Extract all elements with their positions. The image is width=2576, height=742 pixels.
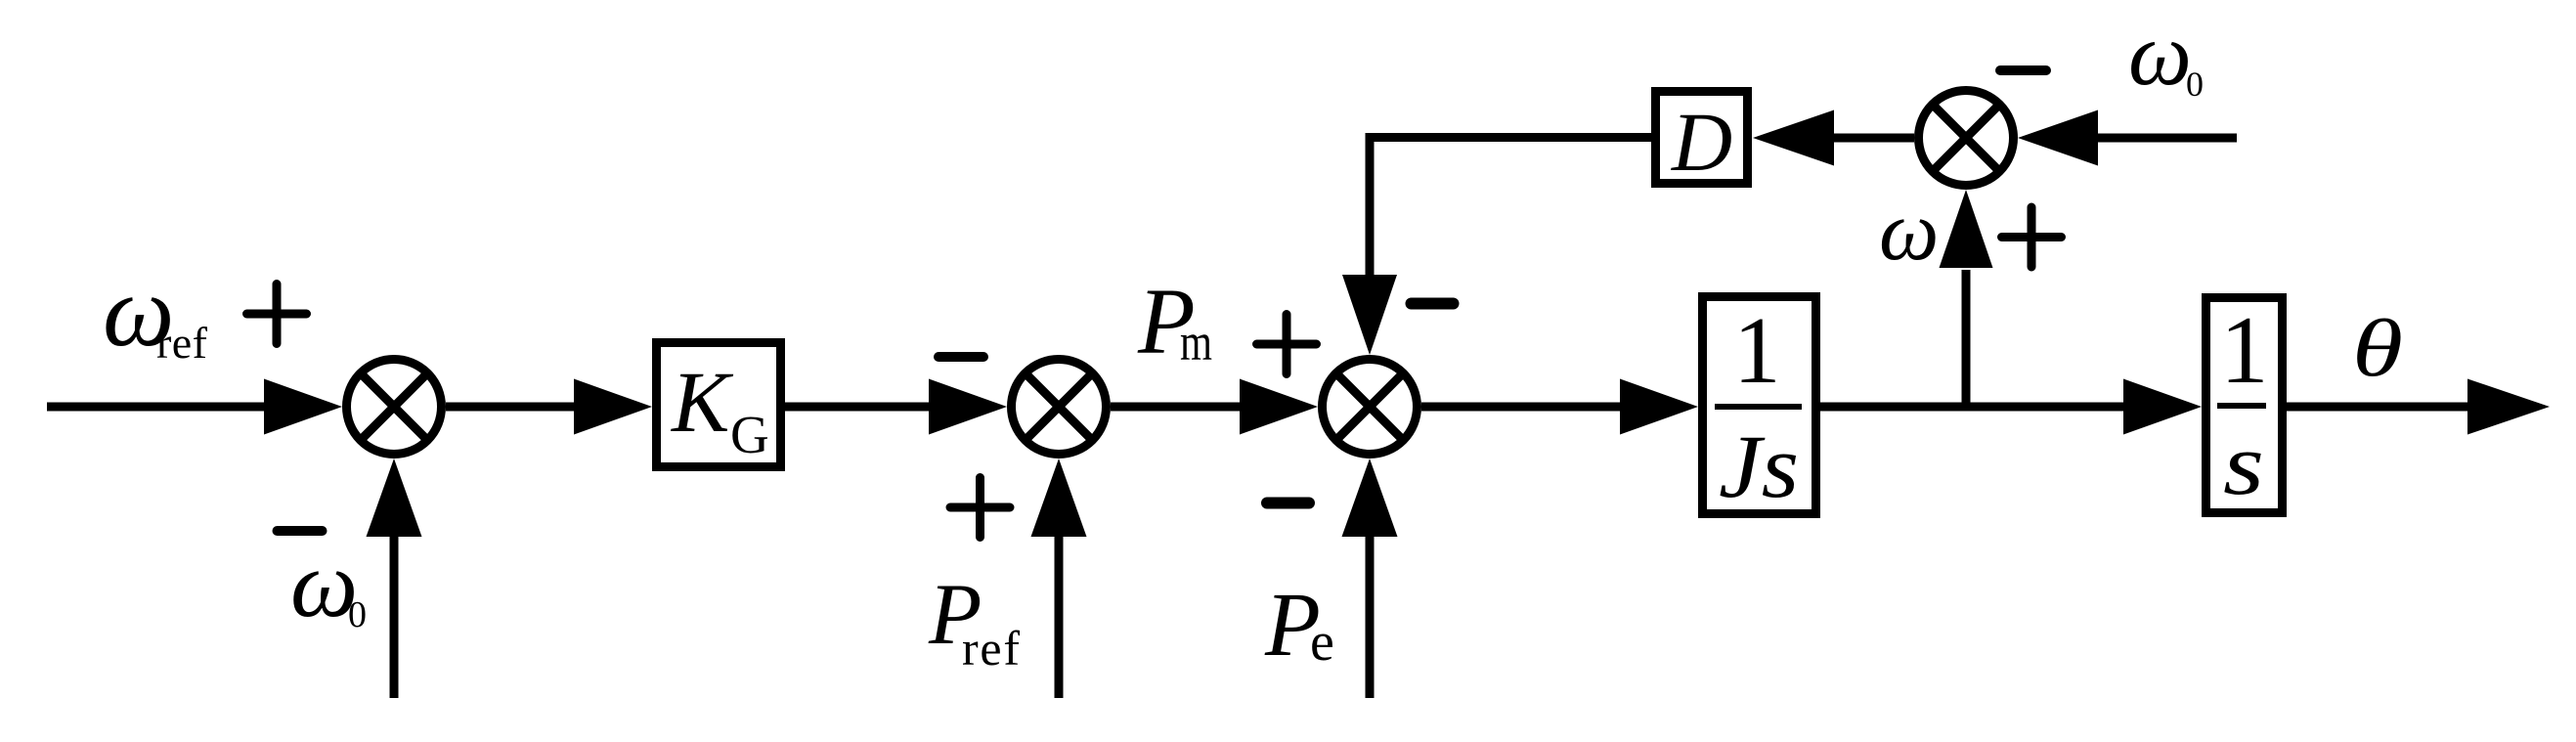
wire S1 to KG: [446, 403, 575, 412]
plus sign at S3 left input: [1257, 315, 1317, 374]
svg-text:1: 1: [2220, 297, 2269, 404]
plus sign at S4 bottom input: [2002, 207, 2062, 267]
summing junction S1 (circle with X): [347, 360, 442, 455]
label omega_ref: [103, 255, 208, 368]
block K_G: [657, 343, 781, 467]
svg-text:0: 0: [348, 594, 367, 635]
minus sign at S3 top input: [1412, 298, 1454, 310]
label P_m: [1137, 269, 1212, 373]
svg-text:s: s: [2223, 416, 2264, 513]
wire omega_0 top input: [2097, 134, 2237, 143]
block 1/Js: [1703, 297, 1816, 517]
arrowhead up into S1: [367, 458, 422, 537]
arrowhead into summing junction S2: [929, 379, 1007, 435]
arrowhead into block 1/s: [2123, 379, 2202, 435]
svg-text:ω: ω: [1879, 183, 1939, 278]
wire P_ref input vertical: [1055, 532, 1064, 698]
minus sign at S4 right input: [2000, 65, 2046, 75]
arrowhead output theta: [2467, 379, 2550, 435]
block 1/s: [2206, 297, 2283, 513]
arrowhead up into S3: [1342, 458, 1398, 537]
svg-text:1: 1: [1733, 298, 1781, 403]
svg-text:G: G: [730, 405, 769, 464]
plus sign at S1 top input: [247, 284, 307, 344]
wire omega_ref input: [47, 403, 264, 412]
arrowhead into block D: [1753, 110, 1834, 166]
wire S3 to 1/Js: [1421, 403, 1621, 412]
svg-text:ref: ref: [962, 621, 1020, 676]
label omega_0 (bottom left): [290, 532, 367, 637]
minus sign at S2 left input: [939, 352, 983, 362]
svg-text:ref: ref: [156, 318, 208, 368]
arrowhead into summing junction S1: [264, 379, 342, 435]
arrowhead up into S4: [1940, 190, 1993, 268]
wire omega branch vertical: [1962, 270, 1971, 407]
label omega_0 (top right): [2128, 4, 2204, 104]
arrowhead into summing junction S3: [1240, 379, 1318, 435]
arrowhead up into S2: [1031, 458, 1087, 537]
summing junction S3 (circle with X): [1323, 360, 1418, 455]
arrowhead into block 1/Js: [1620, 379, 1698, 435]
wire S4 to D: [1833, 134, 1914, 143]
wire P_e input vertical: [1366, 536, 1375, 698]
wire S2 to S3: [1111, 403, 1244, 412]
svg-text:ω: ω: [2128, 4, 2192, 104]
arrowhead down into S3: [1342, 275, 1397, 355]
svg-text:m: m: [1180, 313, 1212, 371]
svg-text:D: D: [1671, 95, 1732, 189]
arrowhead into S4 from right: [2018, 110, 2098, 166]
wire omega_0 input vertical: [390, 535, 399, 698]
block D: [1656, 92, 1748, 190]
summing junction S2 (circle with X): [1012, 360, 1107, 455]
svg-text:K: K: [670, 355, 734, 451]
svg-text:e: e: [1310, 612, 1334, 673]
plus sign at S2 bottom input: [950, 478, 1010, 538]
label P_ref: [928, 567, 1020, 676]
label P_e: [1264, 575, 1334, 676]
wire feedback from D to S3: [1370, 138, 1651, 276]
minus sign at S3 bottom input: [1267, 498, 1309, 509]
svg-text:θ: θ: [2352, 303, 2403, 394]
svg-text:0: 0: [2186, 65, 2204, 104]
wire KG to S2: [785, 403, 930, 412]
summing junction S4 (circle with X): [1919, 91, 2014, 186]
wire 1/Js to 1/s (node at omega branch): [1820, 403, 2124, 412]
svg-text:Js: Js: [1719, 416, 1799, 516]
arrowhead into block KG: [574, 379, 652, 435]
minus sign at S1 bottom input: [278, 526, 323, 536]
wire 1/s to output: [2287, 403, 2468, 412]
